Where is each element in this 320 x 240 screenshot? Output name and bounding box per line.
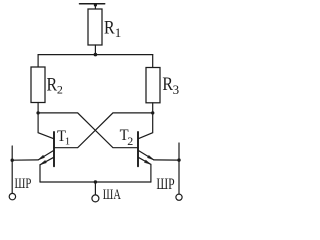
- svg-text:R: R: [47, 75, 58, 95]
- svg-text:ШР: ШР: [15, 174, 32, 191]
- svg-text:1: 1: [65, 137, 70, 148]
- svg-text:ША: ША: [103, 186, 121, 202]
- svg-text:2: 2: [127, 134, 133, 148]
- svg-text:2: 2: [57, 83, 63, 97]
- svg-text:3: 3: [173, 82, 180, 97]
- svg-text:ШР: ШР: [156, 176, 175, 193]
- svg-text:1: 1: [115, 25, 122, 40]
- svg-text:R: R: [104, 17, 115, 37]
